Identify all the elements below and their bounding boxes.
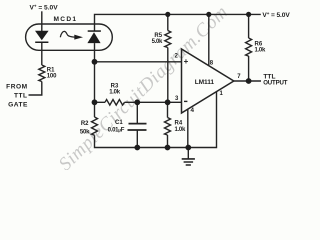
- svg-text:R2: R2: [81, 121, 89, 127]
- svg-text:R1: R1: [47, 67, 55, 73]
- svg-text:OUTPUT: OUTPUT: [263, 80, 288, 87]
- svg-text:1.0k: 1.0k: [109, 90, 120, 96]
- svg-text:50k: 50k: [80, 129, 90, 135]
- svg-text:FROM: FROM: [6, 84, 27, 91]
- svg-text:1.0k: 1.0k: [175, 127, 186, 133]
- svg-text:4: 4: [191, 107, 195, 114]
- svg-text:+: +: [184, 57, 189, 66]
- svg-text:R4: R4: [175, 121, 183, 127]
- svg-text:1.0k: 1.0k: [255, 48, 266, 54]
- svg-text:C1: C1: [115, 120, 123, 126]
- svg-text:MCD1: MCD1: [54, 16, 78, 23]
- svg-text:5.0k: 5.0k: [152, 39, 163, 45]
- svg-text:TTL: TTL: [14, 93, 28, 100]
- svg-text:V+ = 5.0V: V+ = 5.0V: [30, 4, 59, 12]
- svg-text:LM111: LM111: [195, 79, 215, 86]
- svg-text:V+ = 5.0V: V+ = 5.0V: [262, 11, 290, 19]
- svg-text:100: 100: [47, 74, 57, 80]
- svg-text:R6: R6: [255, 41, 263, 47]
- svg-text:GATE: GATE: [8, 101, 28, 108]
- svg-text:0.01µF: 0.01µF: [108, 128, 125, 134]
